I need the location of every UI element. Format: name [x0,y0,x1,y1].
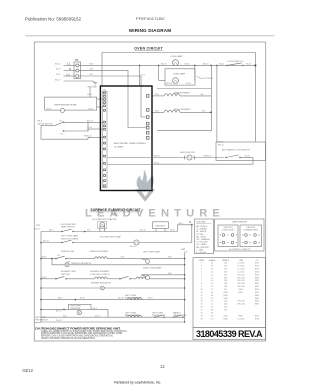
svg-text:8301: 8301 [255,286,259,288]
svg-text:8120: 8120 [255,289,259,291]
wires latch to board [88,121,103,123]
svg-text:OCC.: OCC. [113,214,119,217]
svg-text:CHL-150: CHL-150 [237,286,245,288]
svg-text:BK/W-20: BK/W-20 [204,155,213,157]
svg-text:ELECTRONIC OVEN CONTROL: ELECTRONIC OVEN CONTROL [114,143,147,145]
ballast T1 [153,222,169,229]
svg-text:CHL-150: CHL-150 [237,274,245,276]
svg-text:CL-5201: CL-5201 [237,318,244,320]
svg-text:OVEN LAMP: OVEN LAMP [173,73,186,76]
svg-text:LIMIT SWITCH: LIMIT SWITCH [232,222,247,224]
svg-text:140: 140 [224,286,227,288]
svg-text:1.0: 1.0 [211,271,214,273]
switch S4 oven lamp switch [61,242,62,243]
svg-text:(2 SHOWN, 4 UNITS): (2 SHOWN, 4 UNITS) [90,274,110,276]
board left terminals [104,92,106,186]
heater second surface element [136,277,149,279]
svg-text:90: 90 [211,263,213,265]
svg-text:LATCH MOTOR: LATCH MOTOR [38,122,53,125]
svg-text:RIGHT OVEN LAMP: RIGHT OVEN LAMP [143,267,162,270]
svg-text:LEFT OVEN LAMP: LEFT OVEN LAMP [143,250,161,253]
svg-text:1.0: 1.0 [211,269,214,271]
svg-text:19: 19 [200,315,202,317]
svg-text:BK-16: BK-16 [154,155,160,157]
board left terminal strip [102,91,107,188]
svg-text:1.7: 1.7 [211,286,214,288]
svg-text:THM SWITCH: THM SWITCH [35,319,48,321]
svg-text:9: 9 [201,286,202,288]
wire oven-circuit enclosure [102,53,255,142]
svg-text:7: 7 [201,280,202,282]
svg-text:2040: 2040 [223,295,227,297]
svg-text:Publication No: 5995609152: Publication No: 5995609152 [25,16,82,21]
svg-text:OVEN LAMP: OVEN LAMP [171,55,184,58]
svg-text:8301: 8301 [255,301,259,303]
svg-text:L1: L1 [67,62,71,66]
svg-text:ELEMENT LIMIT: ELEMENT LIMIT [61,271,77,273]
svg-text:1.2: 1.2 [211,277,214,279]
svg-text:12: 12 [160,364,165,369]
temperature probe [45,97,97,110]
svg-text:BK-10: BK-10 [43,241,49,243]
svg-text:2.0: 2.0 [211,318,214,320]
switch S5 griddle switch [55,258,56,259]
svg-text:BK-16: BK-16 [34,229,40,231]
svg-text:CL-5201: CL-5201 [237,269,244,271]
svg-text:8301: 8301 [255,280,259,282]
svg-text:L2: L2 [182,247,186,251]
svg-text:8170: 8170 [255,263,259,265]
svg-text:SURFACE ELEMENT: SURFACE ELEMENT [90,270,110,273]
svg-text:17: 17 [200,310,202,312]
svg-text:13: 13 [200,298,202,300]
row 8: left oven bake element and thermostats [41,316,185,318]
switch S3 fluorescent lamp switch [61,231,62,232]
lamp left oven pilot [141,259,146,261]
svg-text:3: 3 [201,269,202,271]
svg-text:90: 90 [211,266,213,268]
svg-text:8301: 8301 [255,274,259,276]
table data rows [200,263,259,321]
table header row [199,259,259,262]
svg-text:BK-17: BK-17 [55,79,61,81]
svg-text:INF-1: INF-1 [239,315,244,317]
svg-text:2040: 2040 [223,315,227,317]
node LIMIT SWITCH box [215,219,264,251]
svg-text:BK-16: BK-16 [55,63,61,65]
svg-text:BK-16: BK-16 [218,141,224,143]
svg-text:CL-5201: CL-5201 [237,266,244,268]
connector J1 limit switch left [218,225,238,247]
svg-text:SWITCH (LOWER): SWITCH (LOWER) [61,238,78,240]
svg-text:1.7: 1.7 [211,289,214,291]
lamp left oven indicator [77,310,81,314]
svg-text:L1: L1 [37,223,41,227]
svg-text:BK - BLACK: BK - BLACK [196,225,208,228]
svg-text:1.4: 1.4 [211,283,214,285]
svg-text:OC ESEC: OC ESEC [114,146,124,148]
svg-text:OR - ORANGE: OR - ORANGE [196,238,210,241]
diagram outer border [34,42,265,341]
wire probe to board [97,98,103,100]
svg-text:318045339 REV.A: 318045339 REV.A [196,329,263,339]
svg-text:15: 15 [200,304,202,306]
svg-text:8102: 8102 [255,315,259,317]
row 3b: griddle indicator branch [51,258,53,260]
svg-text:CL-5201: CL-5201 [237,263,244,265]
svg-text:GRIDDLE SW.: GRIDDLE SW. [61,251,75,253]
svg-text:2040: 2040 [223,298,227,300]
svg-text:1.2: 1.2 [211,301,214,303]
svg-text:8402: 8402 [255,295,259,297]
svg-text:11: 11 [201,292,203,294]
watermark leadventure flame logo [135,170,155,202]
svg-text:1.2: 1.2 [211,274,214,276]
svg-text:8170: 8170 [255,271,259,273]
node data table box [193,258,265,328]
svg-text:8402: 8402 [255,298,259,300]
svg-text:CHL-150: CHL-150 [237,304,245,306]
switch S6 element limit switch [55,278,56,279]
svg-text:8301: 8301 [255,304,259,306]
wire lamp junction drop GY-7 [139,65,141,86]
svg-text:90: 90 [211,310,213,312]
wire L2 supply lead [64,75,76,77]
svg-text:N: N [189,220,191,224]
svg-text:125: 125 [224,266,227,268]
svg-text:DOOR SWITCH: DOOR SWITCH [228,61,244,63]
row 6: left oven broil element [41,299,185,301]
svg-text:140: 140 [224,280,227,282]
svg-text:1.4: 1.4 [211,315,214,317]
op-amp U1 electronic oven control board [100,86,152,191]
svg-text:140: 140 [224,283,227,285]
svg-text:Rendered by LeadVenture, Inc.: Rendered by LeadVenture, Inc. [114,380,161,384]
header rule [25,35,274,37]
svg-text:AUTOMATIC DOOR SWITCH: AUTOMATIC DOOR SWITCH [222,148,250,151]
svg-text:140: 140 [224,301,227,303]
node COLORS legend box [195,219,214,254]
svg-text:CHL-150: CHL-150 [237,280,245,282]
svg-text:8170: 8170 [255,266,259,268]
svg-text:NO: NO [60,120,63,122]
svg-text:INF-1: INF-1 [239,292,244,294]
svg-text:INDICATOR: INDICATOR [71,307,81,310]
svg-text:135: 135 [224,269,227,271]
wire L1 supply lead [64,64,76,66]
svg-text:18: 18 [200,312,202,314]
svg-text:GRIDDLE ELEMENT: GRIDDLE ELEMENT [90,251,110,253]
wire bottom separator [34,321,41,323]
svg-text:140: 140 [224,304,227,306]
svg-text:GRIDDLE INDICATOR: GRIDDLE INDICATOR [71,262,92,265]
svg-text:HOT RATING CONTACTS: HOT RATING CONTACTS [229,248,251,251]
svg-text:8102: 8102 [255,292,259,294]
svg-text:135: 135 [224,274,227,276]
svg-text:CHL-150: CHL-150 [237,283,245,285]
svg-text:BU-16: BU-16 [118,298,125,300]
lamp griddle indicator [65,263,69,267]
svg-text:DOWN&UP MIDS: DOWN&UP MIDS [244,229,259,231]
wire lamp2 leads [159,79,165,81]
wire N into board [79,71,146,128]
svg-text:6: 6 [201,277,202,279]
svg-text:BK-14: BK-14 [87,120,93,122]
svg-text:150: 150 [224,289,227,291]
ground symbol [94,83,98,85]
svg-text:WIRING DIAGRAM: WIRING DIAGRAM [129,28,171,33]
svg-text:LATCH MOTOR: LATCH MOTOR [180,151,195,154]
svg-text:90: 90 [211,295,213,297]
heater left oven broil element [128,298,142,300]
svg-text:LAMP SWITCH: LAMP SWITCH [61,226,75,229]
switch S2 automatic door switch contacts [225,157,226,158]
oven lamp 2 optional box [165,69,195,85]
svg-text:C.B.M. (R.M.S.): C.B.M. (R.M.S.) [222,229,235,231]
board right terminals [146,95,149,140]
svg-text:V - VIOLET: V - VIOLET [196,252,207,254]
svg-text:GY - GRAY: GY - GRAY [196,243,207,246]
svg-text:150: 150 [224,307,227,309]
svg-text:SAFETY: SAFETY [173,311,181,314]
svg-text:10: 10 [200,289,202,291]
svg-text:1.0: 1.0 [211,298,214,300]
svg-text:2040: 2040 [223,318,227,320]
svg-text:150: 150 [224,310,227,312]
svg-text:FFEF4017LBC: FFEF4017LBC [136,16,165,21]
svg-text:BURNER INDICATOR: BURNER INDICATOR [91,282,111,285]
svg-text:OR-16: OR-16 [166,83,173,85]
svg-text:OVEN: OVEN [199,260,205,262]
svg-text:? BALLAST: ? BALLAST [155,224,166,227]
svg-text:T - TAN: T - TAN [196,248,203,251]
wire L1 bus to door switch [79,64,256,66]
svg-text:OVEN CIRCUIT: OVEN CIRCUIT [134,47,163,51]
svg-text:14: 14 [200,301,202,303]
svg-text:1: 1 [201,263,202,265]
svg-text:FLUORESCENT STARTER: FLUORESCENT STARTER [92,218,117,221]
svg-text:90: 90 [211,292,213,294]
svg-text:CAUTION:DISCONNECT POWER BEFOR: CAUTION:DISCONNECT POWER BEFORE SERVICIN… [35,326,121,330]
svg-text:CL-5201: CL-5201 [237,271,244,273]
wire right bus to latch [216,65,218,142]
svg-text:16: 16 [200,307,202,309]
wire latch motor feed 1 [107,157,152,159]
wire L2 into board [79,76,146,117]
svg-text:8170: 8170 [255,318,259,320]
wire N supply lead [64,70,76,72]
svg-text:4: 4 [201,271,202,273]
latch switch lever [41,124,56,126]
svg-text:FLUORESCENT LAMP: FLUORESCENT LAMP [100,236,122,239]
svg-text:BK-7 ?: BK-7 ? [56,310,63,312]
svg-text:BK-16: BK-16 [161,63,167,65]
svg-text:1.2: 1.2 [211,304,214,306]
lamp burner indicator [100,286,104,290]
svg-text:LEFT OVEN LAMP: LEFT OVEN LAMP [61,235,79,238]
svg-text:BK-16: BK-16 [130,246,136,248]
svg-text:BAKE ELEMENT: BAKE ELEMENT [174,92,191,95]
svg-text:FLUORESCENT: FLUORESCENT [61,224,77,226]
switch S7 second limit switch [119,278,120,279]
row 9: bottom return wire [41,321,185,323]
svg-text:90: 90 [211,312,213,314]
wire latch motor feed 2 [107,164,152,166]
svg-text:GRADE: GRADE [209,259,216,262]
bake/broil enclosure [157,87,212,89]
svg-text:VERIFY PROPER OPERATION AFTER: VERIFY PROPER OPERATION AFTER SERVICING. [41,337,96,340]
svg-text:TEMP-S: TEMP-S [222,260,230,262]
svg-text:SURFACE ELEMENT CIRCUIT: SURFACE ELEMENT CIRCUIT [90,208,141,212]
svg-text:INF-1: INF-1 [239,289,244,291]
svg-text:8: 8 [201,283,202,285]
svg-text:12: 12 [200,295,202,297]
svg-text:135: 135 [224,271,227,273]
svg-text:TB: TB [75,58,79,62]
svg-text:TEMPERATURE PROBE: TEMPERATURE PROBE [54,104,77,107]
wire ground lead [64,81,96,83]
part number box 318045339 REV.A [193,328,265,340]
svg-text:03/12: 03/12 [23,368,34,373]
svg-text:2040: 2040 [223,292,227,294]
connector J2 limit switch right [240,225,262,247]
svg-text:8301: 8301 [255,283,259,285]
svg-text:W-16 ?: W-16 ? [56,320,63,322]
svg-text:140: 140 [224,277,227,279]
svg-text:8301: 8301 [255,277,259,279]
svg-text:BK-16: BK-16 [203,63,209,65]
svg-text:R/BK-14: R/BK-14 [84,136,92,138]
svg-text:UNIT SW.: UNIT SW. [61,274,70,276]
svg-text:5: 5 [201,274,202,276]
svg-text:GROUND: GROUND [88,87,98,89]
automatic door switch box [216,142,265,161]
svg-text:20: 20 [200,318,202,320]
svg-text:1.4: 1.4 [211,280,214,282]
heater left oven bake element [128,315,142,317]
svg-text:2: 2 [201,266,202,268]
latch loop box [41,125,88,139]
svg-text:120: 120 [224,263,227,265]
svg-text:CHL-150: CHL-150 [237,301,245,303]
svg-text:W-7 ?: W-7 ? [95,315,101,317]
svg-text:8170: 8170 [255,269,259,271]
junction dots on L1 wire [139,65,141,67]
svg-text:BU-16: BU-16 [140,230,147,232]
svg-text:BK-16: BK-16 [218,145,224,147]
svg-text:CHL-150: CHL-150 [237,277,245,279]
row 7: left oven indicator [69,304,92,309]
